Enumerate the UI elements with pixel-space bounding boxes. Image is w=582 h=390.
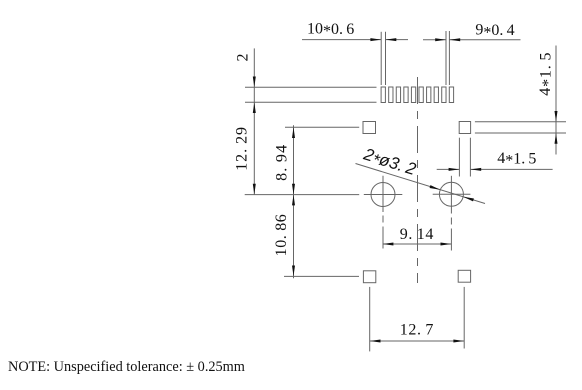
right hole centermark horizontal: [433, 193, 471, 195]
leader 2*ø3.2 text: [360, 144, 419, 181]
pad 5: [411, 87, 415, 103]
dim 10.86 bottom extension line: [284, 275, 359, 277]
pad 6: [419, 87, 423, 103]
pad 4: [404, 87, 408, 103]
dim 12.29 text: [234, 126, 251, 171]
dim 10.86 text: [273, 214, 290, 257]
dim 2 connector segment: [253, 87, 255, 102]
dim 4*1.5 square dim line right: [470, 168, 552, 171]
dim 10*0.6 extension lines: [381, 32, 385, 85]
pad 8: [434, 87, 438, 103]
svg-text:9*0. 4: 9*0. 4: [475, 22, 514, 41]
dim 4*1.5 right upper line: [555, 46, 558, 122]
dim 12.29 dimension line: [253, 102, 256, 194]
top-left square pad: [363, 122, 376, 134]
svg-text:9. 14: 9. 14: [400, 226, 434, 243]
bottom-right square pad: [458, 270, 470, 282]
left hole centermark vertical: [382, 176, 384, 212]
dim 9*0.4 dimension line right: [449, 38, 520, 41]
dim 9.14 dimension line: [383, 243, 452, 246]
svg-text:10. 86: 10. 86: [273, 214, 290, 257]
dim 4*1.5 square dim line left: [437, 168, 460, 171]
dim 10.86 dimension line: [292, 195, 295, 279]
dim 10*0.6 dimension line left: [302, 38, 381, 41]
bottom-left square pad: [363, 271, 375, 283]
svg-text:4*1. 5: 4*1. 5: [497, 150, 536, 169]
dim 9*0.4 extension lines: [446, 31, 449, 85]
pad 7: [427, 87, 431, 103]
right hole centerline extension: [450, 218, 452, 253]
dim 12.7 extension lines: [370, 287, 465, 352]
right pad row bottom line: [475, 132, 566, 134]
svg-text:2*ø3. 2: 2*ø3. 2: [360, 144, 419, 181]
right hole circle: [439, 182, 463, 206]
note text: [8, 359, 245, 375]
vertical centerline: [417, 77, 419, 283]
body top edge line: [245, 86, 377, 88]
dim 9*0.4 text: [475, 22, 514, 41]
right hole centermark vertical: [450, 176, 452, 214]
svg-text:4*1. 5: 4*1. 5: [537, 52, 556, 96]
svg-text:10*0. 6: 10*0. 6: [307, 21, 354, 40]
svg-text:12. 29: 12. 29: [234, 126, 251, 171]
dim 4*1.5 right connector segment: [555, 122, 557, 133]
svg-text:12. 7: 12. 7: [400, 322, 434, 339]
pad 9: [442, 87, 446, 103]
svg-text:8. 94: 8. 94: [274, 144, 291, 181]
pad 10: [449, 87, 453, 103]
pad 3: [396, 87, 400, 103]
dim 8.94 text: [274, 144, 291, 181]
dim 8.94 dimension line: [292, 125, 295, 194]
dim 10*0.6 text: [307, 21, 354, 40]
leader 2*ø3.2 line: [356, 164, 486, 204]
dim 4*1.5 right lower line: [555, 133, 558, 155]
dim 12.7 text: [400, 322, 434, 339]
hole axis extension line left: [245, 194, 360, 196]
svg-text:2: 2: [235, 54, 252, 62]
dim 12.7 dimension line: [370, 340, 465, 343]
dim 9*0.4 dimension line left: [423, 38, 446, 41]
svg-text:NOTE: Unspecified tolerance: ±: NOTE: Unspecified tolerance: ± 0.25mm: [8, 359, 245, 375]
dim 9.14 text: [400, 226, 434, 243]
pad 1: [381, 87, 385, 103]
dim 10*0.6 dimension line right: [386, 38, 409, 41]
dim 4*1.5 right text: [537, 52, 556, 96]
left hole circle: [371, 183, 395, 207]
dim 2 upper line: [253, 48, 256, 87]
body slot bottom edge line: [245, 101, 377, 103]
dim 8.94 top extension line: [285, 126, 359, 128]
dim 2 text: [235, 54, 252, 62]
dim 4*1.5 square text: [497, 150, 536, 169]
right pad row top line: [475, 121, 566, 123]
top-right square pad: [459, 122, 470, 134]
dim 4*1.5 square extension lines: [459, 138, 470, 177]
pad 2: [389, 87, 393, 103]
left hole centermark horizontal: [364, 194, 403, 196]
left hole centerline extension: [382, 216, 384, 253]
